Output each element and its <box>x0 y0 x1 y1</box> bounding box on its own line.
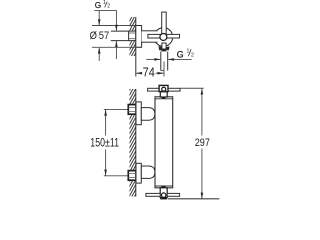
svg-text:G: G <box>177 49 184 59</box>
svg-text:74: 74 <box>143 65 155 80</box>
svg-text:297: 297 <box>195 137 210 149</box>
svg-text:2: 2 <box>107 4 110 10</box>
svg-text:Ø 57: Ø 57 <box>90 30 110 42</box>
svg-text:2: 2 <box>191 53 194 59</box>
svg-text:150±11: 150±11 <box>90 138 119 150</box>
svg-text:G: G <box>95 0 101 10</box>
